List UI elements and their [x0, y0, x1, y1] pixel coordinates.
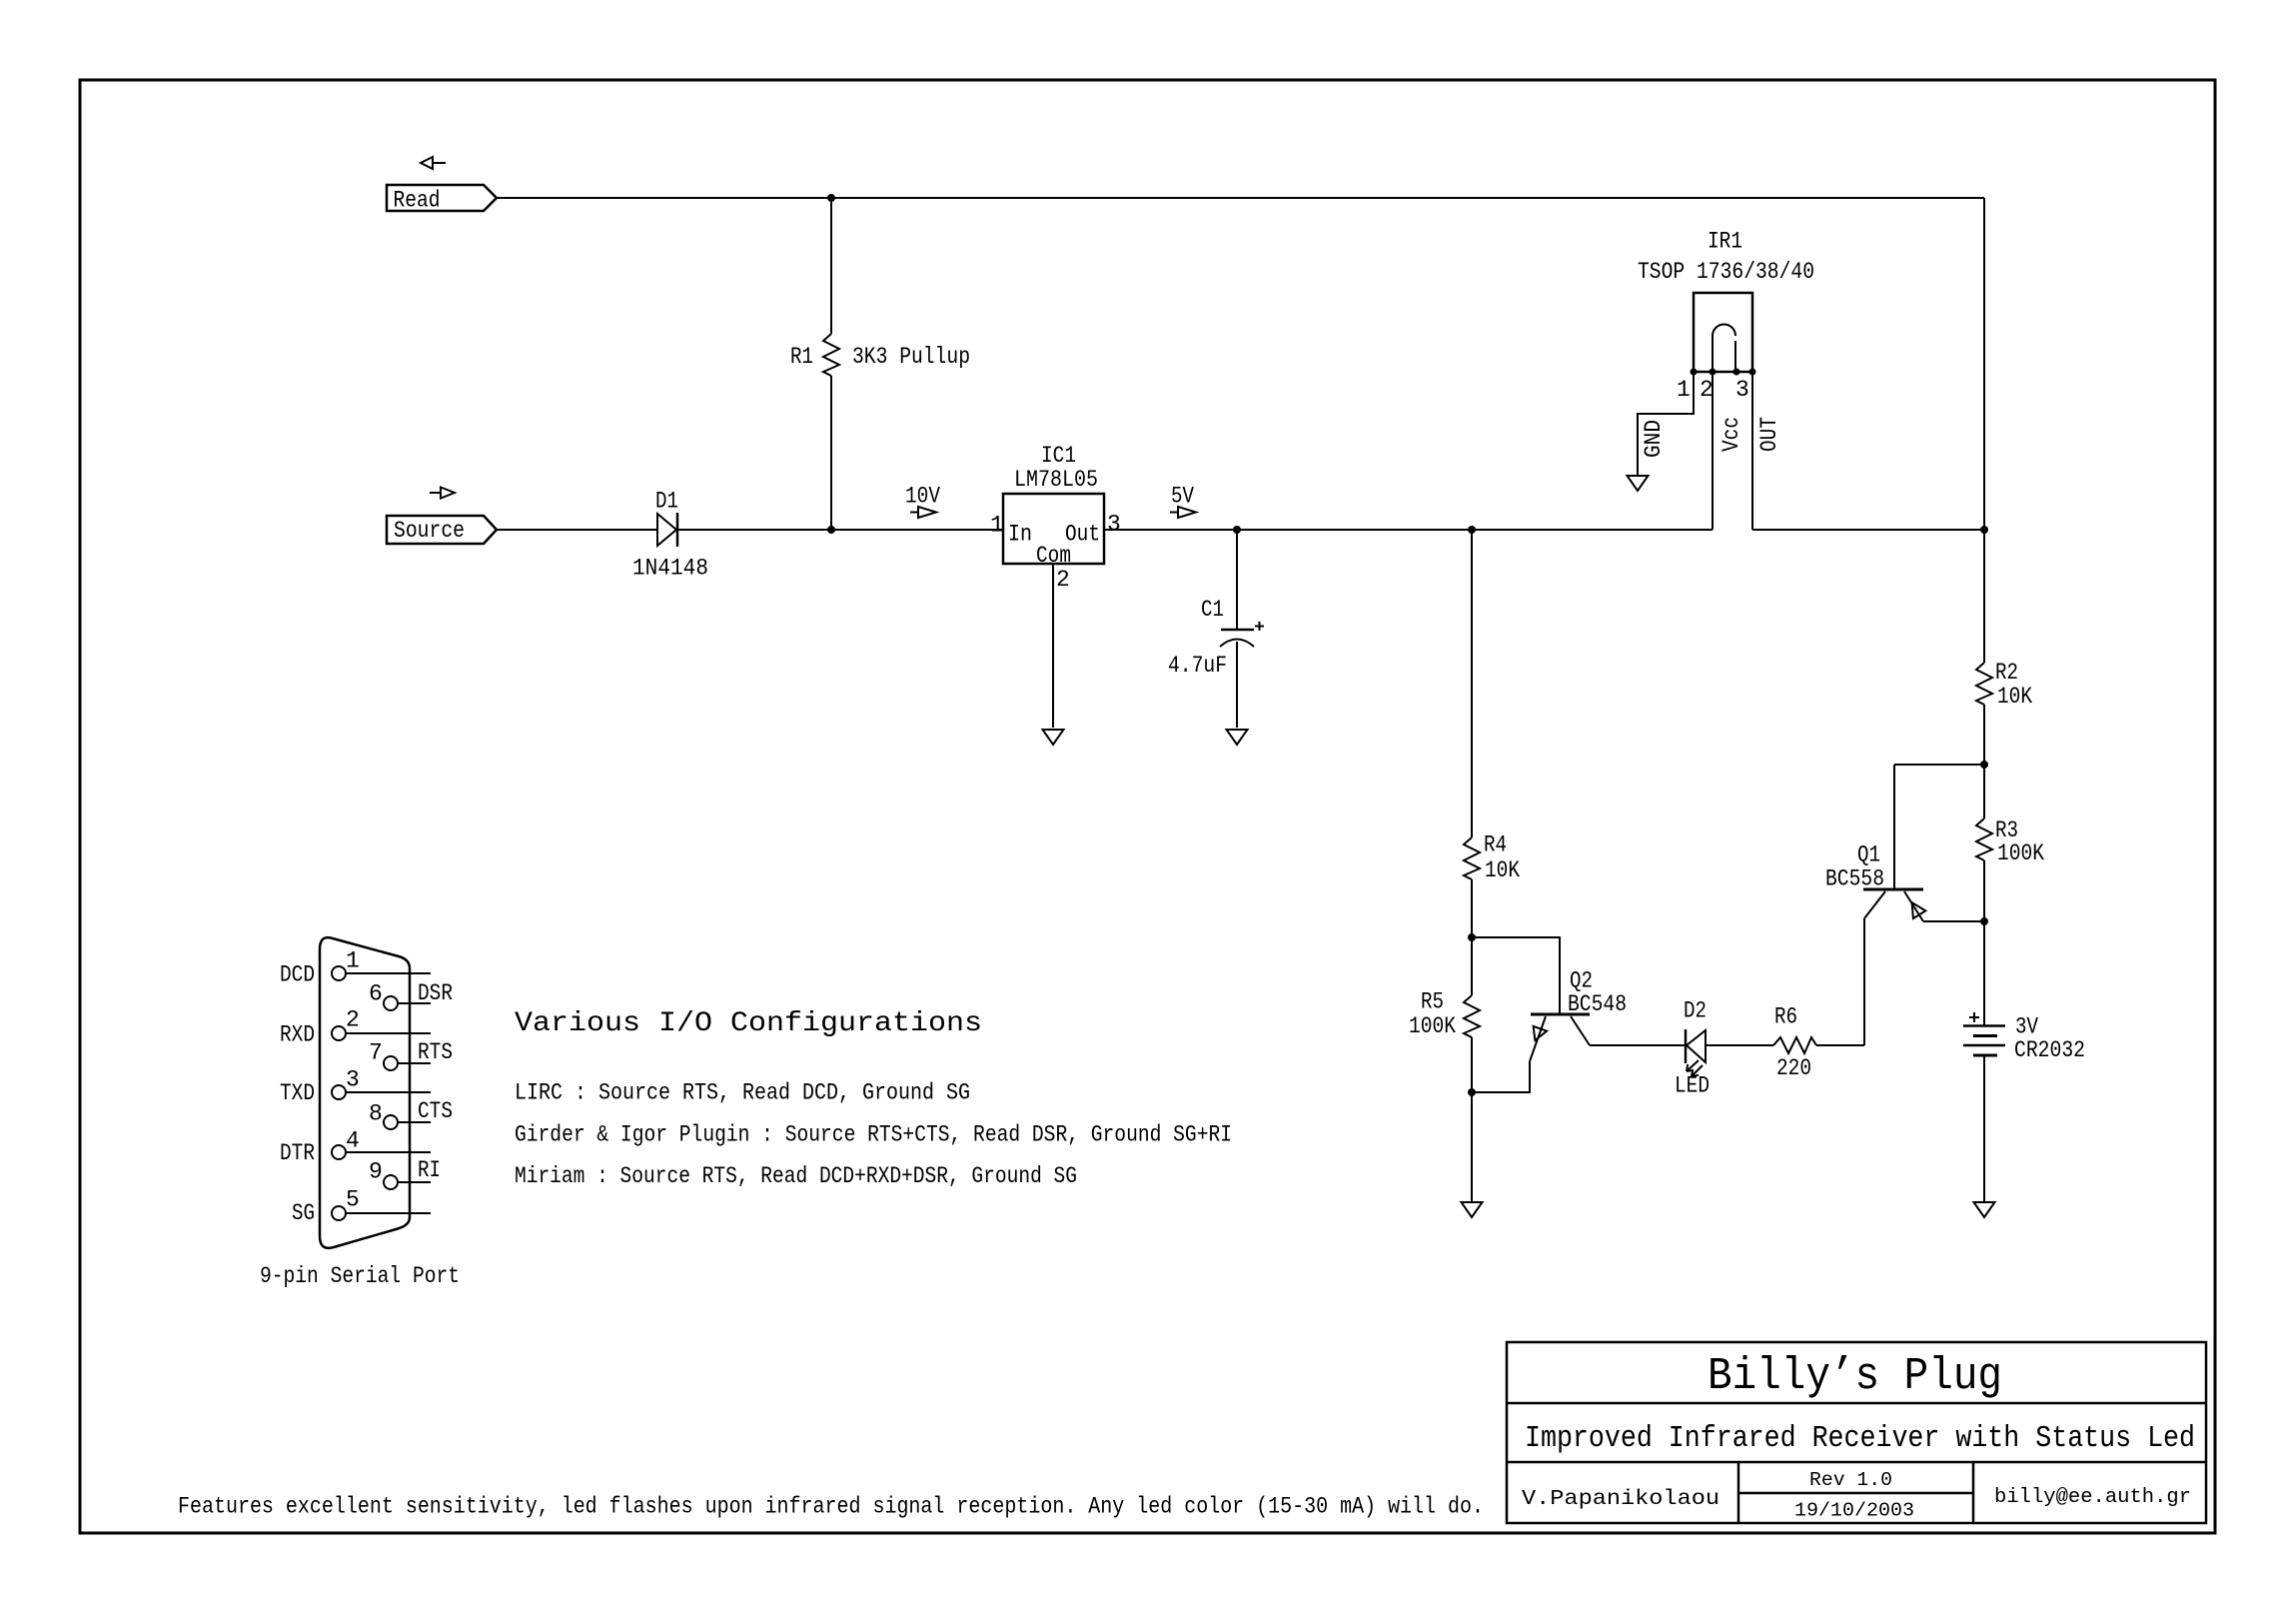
LED D2 [1675, 998, 1710, 1099]
svg-text:1: 1 [1677, 377, 1691, 403]
title block frame [1507, 1342, 2206, 1523]
battery BT1 3V CR2032 [1963, 921, 2085, 1202]
transistor Q2 BC548 (NPN) [1472, 968, 1627, 1093]
wire IR1 pin2 Vcc to 5V rail [1712, 372, 1714, 530]
svg-text:LED: LED [1675, 1073, 1710, 1099]
J1 pin 3 (TXD) [280, 1067, 431, 1107]
svg-text:Vcc: Vcc [1719, 417, 1744, 452]
svg-text:3: 3 [346, 1067, 360, 1093]
svg-text:Miriam : Source RTS, Read DCD+: Miriam : Source RTS, Read DCD+RXD+DSR, G… [515, 1163, 1077, 1189]
svg-text:DTR: DTR [280, 1140, 315, 1166]
svg-text:3: 3 [1735, 377, 1749, 403]
junction R3/battery (Q1 emitter node) [1980, 917, 1988, 925]
J1 pin 8 (CTS) [369, 1098, 453, 1129]
svg-text:Q1: Q1 [1857, 842, 1880, 868]
svg-text:2: 2 [1056, 567, 1070, 593]
wire R4 branch drop [1471, 530, 1473, 837]
svg-text:4.7uF: 4.7uF [1168, 653, 1227, 679]
junction C1 tap [1233, 526, 1241, 534]
label 5V with arrow [1170, 484, 1196, 519]
wire IR1 pin3 OUT down [1751, 372, 1753, 530]
wire Read rail [497, 197, 1984, 199]
svg-text:7: 7 [369, 1040, 383, 1066]
svg-text:9-pin Serial Port: 9-pin Serial Port [260, 1263, 460, 1289]
resistor R2 10K [1976, 530, 2032, 765]
svg-text:IC1: IC1 [1041, 443, 1076, 469]
J1 pin 4 (DTR) [280, 1128, 431, 1167]
svg-text:C1: C1 [1201, 597, 1224, 623]
svg-text:LM78L05: LM78L05 [1014, 467, 1098, 493]
junction R4 branch tap [1468, 526, 1476, 534]
svg-text:R4: R4 [1484, 832, 1507, 858]
svg-text:5: 5 [346, 1187, 360, 1213]
svg-text:RTS: RTS [418, 1039, 453, 1065]
svg-text:10V: 10V [905, 484, 940, 510]
connector J1 DB9 outline [320, 937, 410, 1248]
svg-text:9: 9 [369, 1159, 383, 1185]
junction Source/R1 node [827, 526, 835, 534]
J1 pin 1 (DCD) [280, 948, 431, 988]
svg-text:6: 6 [369, 981, 383, 1007]
J1 pin 6 (DSR) [369, 980, 453, 1010]
net flag arrow (Source, points right) [430, 488, 455, 499]
J1 pin 2 (RXD) [280, 1007, 431, 1048]
wire Q2 collector to D2 [1590, 1044, 1686, 1046]
ground C1 [1227, 730, 1248, 745]
J1 pin 9 (RI) [369, 1157, 441, 1189]
junction R5 bottom (Q2 emitter node) [1468, 1088, 1476, 1096]
svg-text:DSR: DSR [418, 980, 453, 1006]
resistor R5 100K [1409, 989, 1480, 1203]
wire R6 to Q1 collector [1816, 1044, 1864, 1046]
svg-text:4: 4 [346, 1128, 360, 1154]
svg-text:V.Papanikolaou: V.Papanikolaou [1522, 1488, 1720, 1511]
diode D1 1N4148 [632, 489, 708, 582]
svg-text:LIRC : Source RTS, Read DCD, G: LIRC : Source RTS, Read DCD, Ground SG [515, 1080, 970, 1106]
wire IC1 Com pin 2 [1052, 564, 1054, 728]
junction Read/R1 [827, 194, 835, 202]
junction R2/R3 (Q1 base node) [1980, 761, 1988, 769]
svg-text:Improved Infrared Receiver wit: Improved Infrared Receiver with Status L… [1525, 1421, 2195, 1456]
svg-text:R5: R5 [1421, 989, 1444, 1015]
wire right column drop from Read rail [1983, 198, 1985, 530]
svg-text:Features excellent sensitivity: Features excellent sensitivity, led flas… [178, 1494, 1484, 1520]
svg-text:CTS: CTS [418, 1098, 453, 1124]
svg-text:19/10/2003: 19/10/2003 [1794, 1500, 1914, 1522]
svg-text:Billy’s Plug: Billy’s Plug [1708, 1351, 2002, 1402]
svg-text:D2: D2 [1684, 998, 1707, 1024]
J1 pin 7 (RTS) [369, 1039, 453, 1070]
svg-text:DCD: DCD [280, 962, 315, 988]
ground IC1 Com [1043, 730, 1064, 745]
svg-text:R2: R2 [1995, 660, 2018, 686]
svg-text:1: 1 [346, 948, 360, 974]
svg-text:GND: GND [1641, 420, 1667, 458]
svg-text:220: 220 [1776, 1055, 1811, 1081]
svg-text:billy@ee.auth.gr: billy@ee.auth.gr [1994, 1486, 2191, 1509]
IR receiver IR1 TSOP 1736/38/40 [1638, 229, 1814, 404]
svg-text:TSOP 1736/38/40: TSOP 1736/38/40 [1638, 259, 1814, 285]
resistor R3 100K [1976, 765, 2044, 921]
junction OUT node [1980, 526, 1988, 534]
resistor R4 10K [1464, 832, 1520, 996]
svg-text:RI: RI [418, 1157, 441, 1183]
ground battery [1974, 1202, 1995, 1217]
net flag Read [387, 185, 497, 214]
label 10V with arrow [905, 484, 940, 519]
wire D1 to IC1 pin1 [677, 529, 1003, 531]
svg-text:3V: 3V [2015, 1014, 2038, 1040]
svg-text:SG: SG [292, 1200, 315, 1226]
svg-text:Read: Read [394, 188, 441, 214]
svg-text:8: 8 [369, 1101, 383, 1127]
ground R5/Q2 branch [1462, 1202, 1483, 1217]
regulator IC1 LM78L05 [990, 443, 1121, 593]
wire D2 to R6 [1706, 1044, 1773, 1046]
resistor R1 [790, 198, 970, 530]
wire Q1 base tap [1894, 764, 1984, 766]
svg-text:R6: R6 [1774, 1004, 1797, 1030]
svg-text:R1: R1 [790, 344, 813, 370]
svg-text:CR2032: CR2032 [2014, 1037, 2085, 1063]
ground IR1 GND [1628, 476, 1649, 491]
svg-text:Q2: Q2 [1570, 968, 1593, 994]
resistor R6 220 [1773, 1004, 1816, 1082]
wire Q2 base tap [1472, 937, 1560, 1014]
wire 5V rail (IC1 Out to IR1 Vcc) [1104, 529, 1713, 531]
capacitor C1 4.7uF [1168, 530, 1264, 728]
svg-text:2: 2 [346, 1007, 360, 1033]
svg-text:OUT: OUT [1756, 417, 1782, 452]
svg-text:Various I/O Configurations: Various I/O Configurations [515, 1008, 982, 1039]
svg-text:In: In [1008, 522, 1032, 548]
svg-text:10K: 10K [1997, 684, 2032, 710]
net flag arrow (Read, points left) [421, 157, 446, 169]
transistor Q1 BC558 (PNP) [1825, 765, 1984, 1045]
svg-text:Girder & Igor Plugin : Source: Girder & Igor Plugin : Source RTS+CTS, R… [515, 1122, 1232, 1148]
svg-text:Rev 1.0: Rev 1.0 [1809, 1469, 1892, 1491]
svg-text:100K: 100K [1997, 840, 2044, 866]
svg-text:3: 3 [1107, 512, 1121, 538]
net flag Source [387, 516, 497, 544]
svg-text:TXD: TXD [280, 1080, 315, 1106]
svg-text:RXD: RXD [280, 1022, 315, 1048]
wire Source to D1 [497, 529, 657, 531]
svg-text:10K: 10K [1485, 857, 1520, 883]
svg-text:1: 1 [990, 513, 1004, 539]
svg-text:Source: Source [394, 518, 465, 544]
svg-text:100K: 100K [1409, 1013, 1456, 1039]
wire OUT rail to right column [1752, 529, 1984, 531]
wire IR1 pin1 to ground [1638, 372, 1694, 476]
svg-text:3K3 Pullup: 3K3 Pullup [852, 344, 970, 370]
svg-text:1N4148: 1N4148 [632, 556, 708, 582]
svg-text:D1: D1 [655, 489, 678, 515]
svg-text:IR1: IR1 [1708, 229, 1742, 255]
J1 pin 5 (SG) [292, 1187, 431, 1227]
svg-text:5V: 5V [1171, 484, 1194, 510]
svg-text:2: 2 [1700, 377, 1714, 403]
junction R4/R5 (Q2 base node) [1468, 933, 1476, 941]
